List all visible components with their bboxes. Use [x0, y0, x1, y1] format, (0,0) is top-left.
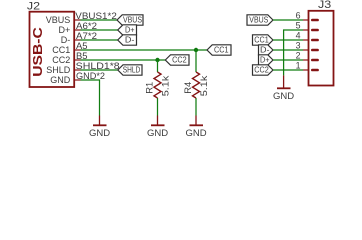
svg-text:CC1: CC1: [254, 36, 269, 45]
svg-text:SHLD: SHLD: [46, 65, 71, 75]
svg-text:6: 6: [296, 11, 301, 21]
global label CC1 (right): [253, 35, 274, 45]
wire GND vertical: [99, 79, 101, 115]
global label CC2 (mid): [165, 55, 189, 65]
wire pin5 to GND horizontal: [284, 29, 303, 31]
svg-text:CC2: CC2: [52, 55, 70, 65]
J2 body rectangle: [30, 12, 75, 87]
pin 2 line: [303, 59, 309, 61]
GND symbol under J2: [89, 116, 110, 140]
svg-text:GND: GND: [185, 128, 206, 139]
pin 4 socket: [312, 39, 317, 42]
svg-text:CC2: CC2: [172, 56, 187, 65]
svg-text:CC2: CC2: [254, 66, 269, 75]
global label CC2 (right): [253, 65, 274, 75]
global label D+ (right): [259, 55, 274, 65]
svg-text:VBUS: VBUS: [123, 16, 142, 25]
svg-text:SHLD: SHLD: [123, 66, 141, 75]
svg-text:5.1k: 5.1k: [161, 75, 171, 96]
svg-text:4: 4: [296, 31, 301, 41]
global label SHLD (left): [118, 65, 142, 75]
wire SHLD (J2 to label): [81, 69, 118, 71]
wire CC2 (J2 to label): [81, 59, 166, 61]
svg-text:VBUS1*2: VBUS1*2: [75, 11, 117, 21]
svg-text:GND: GND: [273, 91, 294, 102]
pin 1 line: [303, 69, 309, 71]
global label D- (left): [118, 35, 137, 45]
pin VBUS stub: [75, 19, 81, 21]
svg-text:2: 2: [296, 51, 301, 61]
pin CC2 stub: [75, 59, 81, 61]
global label VBUS (left): [117, 15, 143, 25]
svg-text:GND: GND: [50, 75, 71, 85]
global label D- (right): [259, 45, 274, 55]
wire CC2 junction down to R1: [157, 60, 159, 72]
svg-text:A7*2: A7*2: [76, 31, 97, 41]
svg-text:J3: J3: [318, 0, 331, 11]
wire D+ (J2 to label): [81, 29, 118, 31]
svg-text:5: 5: [296, 21, 301, 31]
wire VBUS right label to pin6: [273, 19, 303, 21]
svg-text:GND: GND: [147, 128, 168, 139]
svg-text:R4: R4: [183, 82, 193, 94]
connector J2 (USB-C receptacle): [27, 0, 120, 87]
pin 1 socket: [312, 69, 317, 72]
wire D- right label to pin3: [273, 49, 303, 51]
wire D- (J2 to label): [81, 39, 118, 41]
pin 3 socket: [312, 49, 317, 52]
pin D- stub: [75, 39, 81, 41]
pin 2 socket: [312, 59, 317, 62]
svg-text:A6*2: A6*2: [76, 21, 97, 31]
svg-text:3: 3: [296, 41, 301, 51]
pin 6 line: [303, 19, 309, 21]
svg-text:CC1: CC1: [214, 46, 229, 55]
svg-text:R1: R1: [144, 82, 154, 94]
global label VBUS (right): [247, 15, 273, 25]
svg-text:GND: GND: [89, 128, 110, 139]
svg-text:GND*2: GND*2: [76, 71, 105, 81]
pin D+ stub: [75, 29, 81, 31]
pin 4 line: [303, 39, 309, 41]
svg-text:J2: J2: [27, 0, 40, 12]
resistor R1: [144, 72, 170, 98]
resistor R4: [183, 72, 209, 98]
svg-text:D+: D+: [59, 25, 71, 35]
pin 5 socket: [312, 29, 317, 32]
svg-text:D+: D+: [125, 26, 135, 35]
svg-text:CC1: CC1: [52, 45, 70, 55]
junction CC2/R1: [155, 58, 159, 62]
wire D+ right label to pin2: [273, 59, 303, 61]
svg-text:A5: A5: [76, 41, 88, 51]
GND symbol under R1: [147, 116, 168, 140]
wire GND horizontal: [81, 79, 100, 81]
pin GND stub: [75, 79, 81, 81]
connector J3: [296, 0, 334, 86]
wire CC1 junction down to R4: [195, 50, 197, 72]
svg-text:D+: D+: [260, 56, 270, 65]
junction CC1/R4: [194, 48, 198, 52]
pin CC1 stub: [75, 49, 81, 51]
svg-text:5.1k: 5.1k: [199, 75, 209, 96]
svg-text:D-: D-: [61, 35, 71, 45]
pin SHLD stub: [75, 69, 81, 71]
svg-text:SHLD1*8: SHLD1*8: [76, 61, 120, 71]
pin 6 socket: [312, 19, 317, 22]
GND symbol under R4: [185, 116, 206, 140]
wire CC1 (J2 to label): [81, 49, 208, 51]
svg-text:D-: D-: [260, 46, 270, 55]
global label CC1 (mid): [207, 45, 231, 55]
wire VBUS (J2 to label): [81, 19, 118, 21]
svg-text:B5: B5: [76, 51, 88, 61]
global label D+ (left): [118, 25, 137, 35]
wire CC2 right label to pin1: [273, 69, 303, 71]
svg-text:D-: D-: [125, 36, 135, 45]
wire CC1 right label to pin4: [273, 39, 303, 41]
pin 5 line: [303, 29, 309, 31]
pin 3 line: [303, 49, 309, 51]
svg-text:VBUS: VBUS: [46, 15, 71, 25]
wire R1 bottom to GND: [157, 98, 159, 116]
wire pin5 GND vertical: [283, 29, 285, 75]
svg-text:VBUS: VBUS: [249, 16, 268, 25]
J3 body rectangle: [309, 11, 334, 86]
svg-text:USB-C: USB-C: [31, 27, 45, 77]
wire R4 bottom to GND: [195, 98, 197, 116]
svg-text:1: 1: [296, 61, 301, 71]
GND symbol under J3 pin5: [273, 75, 294, 102]
